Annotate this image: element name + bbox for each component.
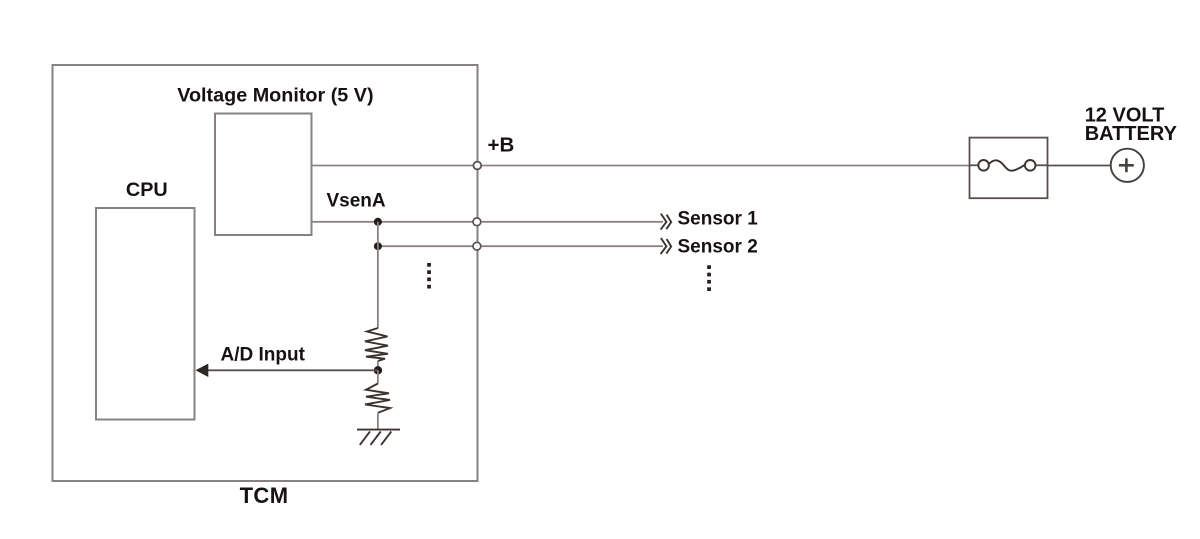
connector +B at TCM edge: [473, 162, 481, 170]
ellipsis inside TCM: [427, 263, 431, 289]
arrowhead into CPU: [196, 364, 209, 377]
wire fuse to battery: [1048, 165, 1111, 167]
CPU box: [96, 208, 195, 420]
wire between R1 and A/D node: [377, 361, 379, 370]
voltage monitor U1 box: [215, 114, 312, 236]
fuse F1 box: [970, 138, 1048, 199]
resistor R1: [365, 328, 388, 361]
svg-text:VsenA: VsenA: [327, 190, 386, 211]
junction dot A/D node: [374, 366, 382, 374]
junction dot Sensor 2 node: [374, 242, 382, 250]
connector Sensor 1 at TCM edge: [473, 218, 481, 226]
svg-text:Sensor 2: Sensor 2: [678, 237, 758, 258]
wire stub inside fuse left: [970, 164, 979, 166]
wire R2 to ground: [377, 413, 379, 430]
wire Sensor 1 external: [481, 221, 663, 223]
svg-text:A/D Input: A/D Input: [221, 344, 306, 365]
svg-text:BATTERY: BATTERY: [1085, 123, 1178, 145]
wire A/D node down to resistor R2: [377, 370, 379, 383]
resistor R2: [365, 384, 390, 413]
wire A/D input: [206, 369, 378, 371]
svg-text:TCM: TCM: [240, 483, 289, 508]
ellipsis below Sensor 2: [707, 265, 711, 291]
svg-text:Sensor 1: Sensor 1: [678, 208, 759, 229]
svg-text:+B: +B: [488, 134, 515, 157]
TCM module box: [53, 65, 478, 481]
fuse element: [978, 160, 1035, 171]
ground: [357, 430, 400, 445]
wire VsenA internal from voltage monitor to TCM edge: [312, 221, 478, 223]
battery BT1 symbol: [1111, 149, 1144, 182]
chevron Sensor 2: [661, 238, 672, 254]
wire +B external from TCM edge to fuse: [477, 165, 970, 167]
junction dot VsenA node: [374, 218, 382, 226]
wire VsenA vertical down to resistor: [377, 222, 379, 329]
wire +B internal from voltage monitor to TCM edge: [312, 165, 478, 167]
svg-text:CPU: CPU: [126, 179, 168, 201]
wire Sensor 2 external: [481, 245, 663, 247]
connector Sensor 2 at TCM edge: [473, 242, 481, 250]
svg-text:Voltage Monitor (5 V): Voltage Monitor (5 V): [177, 85, 373, 107]
wire Sensor 2 internal: [378, 245, 477, 247]
wire stub inside fuse right: [1036, 164, 1048, 166]
chevron Sensor 1: [661, 214, 672, 230]
